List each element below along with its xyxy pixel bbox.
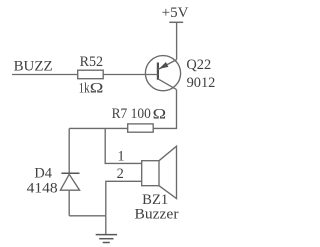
transistor Q22 emitter line [158, 60, 177, 70]
transistor Q22 emitter arrow [159, 62, 168, 69]
svg-text:Buzzer: Buzzer [135, 206, 179, 222]
svg-text:9012: 9012 [187, 75, 216, 91]
wire BUZZ to R52 [12, 74, 78, 76]
svg-text:2: 2 [117, 166, 124, 182]
wire bottom horizontal [69, 215, 106, 217]
wire R7 left to diode top [69, 127, 128, 129]
ground bar 3 [103, 242, 110, 244]
wire buzzer pin 2 to ground [106, 181, 142, 216]
svg-text:1k: 1k [79, 80, 91, 96]
svg-text:R7 100: R7 100 [112, 106, 151, 122]
wire diode branch top [68, 128, 70, 173]
svg-text:D4: D4 [34, 166, 52, 182]
ground stem [105, 216, 107, 235]
resistor R52 [78, 70, 104, 79]
+5V power bar [169, 21, 183, 23]
svg-text:4148: 4148 [27, 181, 58, 197]
transistor Q22 body circle [145, 56, 180, 91]
resistor R7 [128, 124, 154, 132]
svg-text:Q22: Q22 [186, 57, 211, 73]
transistor Q22 collector line [158, 79, 176, 90]
wire diode bottom [68, 190, 70, 216]
diode D4 cathode bar [61, 172, 79, 174]
buzzer BZ1 horn [159, 146, 177, 198]
ground bar 1 [96, 234, 117, 236]
svg-text:+5V: +5V [162, 5, 189, 21]
svg-text:Ω: Ω [90, 81, 104, 97]
wire collector to R7 [153, 89, 176, 128]
svg-text:R52: R52 [80, 54, 103, 70]
wire R52 to base [103, 74, 158, 76]
wire +5V bar to emitter [176, 22, 178, 59]
transistor Q22 base bar [157, 63, 159, 80]
diode D4 triangle [60, 174, 79, 190]
buzzer BZ1 body rect [142, 161, 159, 186]
wire junction to buzzer pin 1 [105, 128, 142, 163]
svg-text:Ω: Ω [153, 106, 167, 122]
svg-text:BUZZ: BUZZ [14, 58, 53, 74]
svg-text:1: 1 [117, 149, 124, 165]
ground bar 2 [99, 238, 113, 240]
